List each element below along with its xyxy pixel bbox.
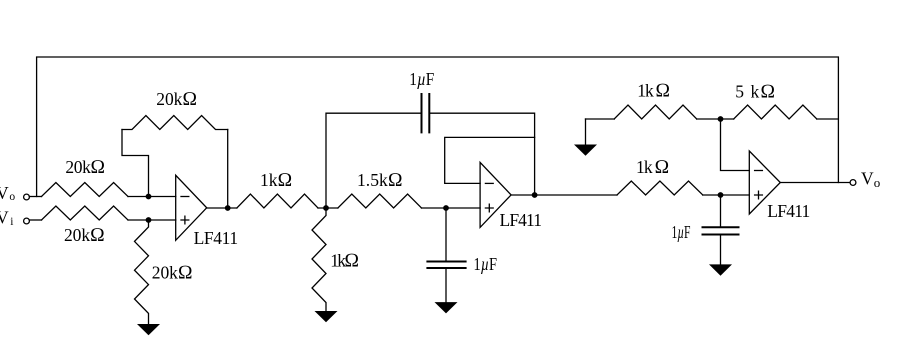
wire R9 to node D (703, 194, 750, 196)
wire R8 to output column (817, 118, 839, 120)
wire R5 to node B (422, 207, 481, 209)
ground under C2 (435, 302, 458, 313)
svg-text:i: i (10, 216, 13, 228)
wire R4 to node A (318, 207, 338, 209)
resistor R3 20kOhm feedback (122, 116, 228, 130)
wire U3 output to Vo terminal (780, 182, 850, 184)
svg-text:1k Ω: 1k Ω (637, 80, 670, 101)
svg-text:20kΩ: 20kΩ (156, 89, 197, 110)
op-amp U2 LF411 (480, 162, 511, 227)
capacitor C1 1uF plates (422, 94, 430, 132)
svg-text:20kΩ: 20kΩ (64, 225, 105, 246)
svg-text:1k Ω: 1k Ω (636, 157, 670, 178)
node Vo input terminal (24, 194, 30, 200)
wire node C down to U3 inverting input (721, 119, 750, 171)
resistor R5 1.5kOhm (338, 194, 422, 208)
svg-text:V: V (0, 183, 9, 203)
svg-text:1µF: 1µF (474, 254, 498, 274)
svg-text:LF411: LF411 (194, 228, 239, 248)
U2 minus sign (485, 182, 493, 184)
capacitor C3 1uF plates (703, 227, 739, 234)
wire global feedback top (37, 57, 839, 197)
svg-text:1.5kΩ: 1.5kΩ (357, 170, 403, 191)
wire feedback left stair of R3 (122, 130, 149, 197)
svg-text:V: V (861, 168, 874, 188)
wire C1 to U2 output column (429, 113, 534, 195)
node junction U2 output (532, 192, 538, 198)
wire U2 output (511, 194, 617, 196)
node junction U1 output (225, 205, 231, 211)
U3 plus sign (755, 191, 763, 199)
wire C2 to ground (445, 268, 447, 302)
node junction at op-amp U1 inverting input (146, 194, 152, 200)
node C junction (718, 116, 724, 122)
wire R3 right to U1 output (227, 130, 229, 209)
wire node B down to capacitor C2 (445, 208, 447, 262)
resistor R8 5kOhm (734, 105, 817, 119)
wire U1 output (207, 207, 237, 209)
svg-text:o: o (874, 175, 881, 190)
ground under 20kOhm (137, 324, 160, 335)
node junction at op-amp U1 non-inverting input (146, 217, 152, 223)
op-amp U1 LF411 (176, 175, 207, 240)
U1 minus sign (181, 196, 189, 198)
resistor R2 20kOhm (Vi input) (42, 206, 129, 220)
U3 minus sign (755, 170, 763, 172)
svg-text:1µF: 1µF (409, 69, 434, 89)
capacitor C2 1uF plates (427, 262, 465, 269)
ground stage3 left (585, 119, 587, 145)
wire C3 to ground (720, 235, 722, 265)
wire Vi terminal to R2 (29, 219, 41, 221)
wire Vo terminal to R1 (29, 196, 41, 198)
resistor R6 1kOhm vertical to ground (312, 208, 326, 311)
svg-text:V: V (0, 208, 9, 228)
resistor R7 1kOhm (614, 105, 697, 119)
svg-text:20kΩ: 20kΩ (152, 263, 193, 284)
U1 plus sign (181, 216, 189, 224)
op-amp U3 LF411 (749, 151, 780, 214)
node B junction (443, 205, 449, 211)
resistor R vertical 20kOhm to ground (135, 220, 149, 324)
U2 plus sign (485, 204, 493, 212)
resistor R4 1kOhm (237, 194, 318, 208)
svg-text:1kΩ: 1kΩ (260, 170, 293, 191)
ground under C3 (709, 264, 732, 275)
node D junction (718, 192, 724, 198)
svg-text:1µF: 1µF (672, 222, 691, 242)
wire U2 direct feedback (445, 137, 535, 183)
resistor R1 20kOhm (Vo input) (42, 183, 129, 197)
resistor R9 1kOhm (to U3 +) (617, 181, 703, 195)
node A junction (323, 205, 329, 211)
wire ground to R7 (586, 118, 615, 120)
node Vo output terminal (850, 180, 856, 186)
svg-text:1kΩ: 1kΩ (330, 251, 359, 272)
svg-text:LF411: LF411 (500, 210, 543, 230)
svg-text:LF411: LF411 (767, 201, 810, 221)
wire R1 to inverting node (128, 196, 176, 198)
svg-text:o: o (9, 191, 15, 203)
ground under R6 (315, 311, 338, 322)
svg-text:20kΩ: 20kΩ (65, 157, 105, 178)
wire R2 to non-inverting node (128, 219, 176, 221)
wire R7 to node C (697, 118, 734, 120)
svg-text:5 kΩ: 5 kΩ (735, 81, 775, 102)
wire node A up to capacitor C1 (326, 113, 422, 208)
node Vi input terminal (24, 218, 30, 224)
wire node D down to capacitor C3 (720, 195, 722, 227)
